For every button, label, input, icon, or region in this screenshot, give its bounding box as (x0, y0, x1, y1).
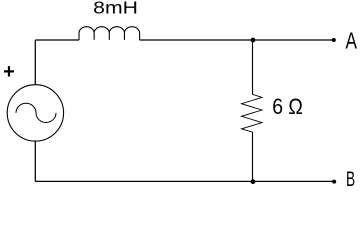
ac source sine wave (16, 103, 56, 122)
inductor L1 8mH (79, 27, 140, 40)
wire resistor branch upper (252, 40, 254, 94)
junction dot bottom (251, 179, 256, 184)
svg-text:+: + (3, 61, 15, 83)
svg-text:8mH: 8mH (93, 0, 138, 18)
wire left rail lower (34, 141, 36, 181)
svg-text:B: B (346, 167, 355, 190)
wire resistor branch lower (252, 132, 254, 181)
wire top-left horizontal (35, 39, 79, 41)
ac source VS circle (7, 85, 63, 141)
wire bottom horizontal (35, 180, 334, 182)
terminal dot A (332, 38, 336, 42)
wire left rail upper (34, 40, 36, 85)
terminal dot B (332, 180, 336, 184)
svg-text:A: A (346, 29, 358, 54)
svg-text:6 Ω: 6 Ω (272, 95, 303, 119)
resistor R1 6 ohm zigzag (242, 94, 263, 132)
wire top-right horizontal (140, 39, 334, 41)
junction dot top (251, 38, 256, 43)
